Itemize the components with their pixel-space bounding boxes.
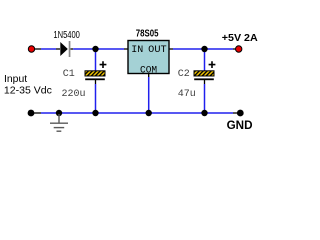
svg-text:1N5400: 1N5400 [53,30,80,41]
svg-text:220u: 220u [62,89,86,100]
wire: top rail input terminal to diode (black lead + blue) [31,48,56,50]
node: diode/C1 junction on top rail [92,46,98,52]
svg-text:COM: COM [140,65,157,76]
svg-text:78S05: 78S05 [136,28,159,39]
wire: regulator OUT pin to +5V terminal [169,48,239,50]
wire: COM pin down to ground rail [148,74,150,114]
svg-text:47u: 47u [178,89,196,100]
node: ground-rail junction under C2 [201,110,207,116]
wire: C2 branch vertical [204,49,206,113]
svg-text:Input: Input [4,74,27,85]
regulator U1 78S05 body [128,41,169,77]
wire: diode cathode to regulator IN pin [71,48,129,50]
terminal: GND output (black) [237,110,244,117]
svg-text:IN: IN [131,45,143,56]
svg-text:OUT: OUT [148,45,167,56]
node: ground-rail junction under ground symbol [56,110,62,116]
wire: bottom ground rail [31,112,240,114]
ground (earth) symbol [50,114,68,131]
capacitor C2 (polarized, striped top plate) [194,61,215,80]
node: ground-rail junction under COM [146,110,152,116]
terminal: input + (red) [28,46,34,52]
svg-text:GND: GND [227,118,253,132]
terminal: +5V output (red) [236,46,242,52]
svg-text:+5V 2A: +5V 2A [222,33,259,44]
svg-text:C2: C2 [178,69,190,80]
terminal: input - (black) [28,110,35,117]
diode D1 1N5400 [56,41,70,57]
svg-text:C1: C1 [63,69,75,80]
node: ground-rail junction under C1 [92,110,98,116]
node: OUT/C2 junction on top rail [201,46,207,52]
wire: C1 branch vertical [95,49,97,113]
capacitor C1 (polarized, striped top plate) [85,61,106,80]
svg-text:12-35 Vdc: 12-35 Vdc [4,85,52,96]
